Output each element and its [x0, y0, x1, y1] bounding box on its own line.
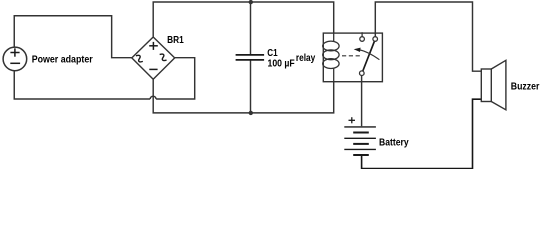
svg-text:Battery: Battery	[379, 137, 409, 148]
wire C1 top lead	[250, 2, 252, 55]
relay actuation arrow head	[354, 48, 361, 52]
buzzer cone	[491, 60, 506, 110]
BR1 plus sign	[149, 42, 158, 50]
wire relay NO contact to buzzer top	[375, 2, 481, 71]
relay switch arm	[363, 41, 375, 71]
relay common contact circle	[360, 71, 365, 76]
relay box	[323, 33, 382, 82]
wire battery minus to buzzer bottom	[362, 99, 482, 168]
svg-text:relay: relay	[296, 53, 316, 64]
svg-text:Buzzer: Buzzer	[511, 81, 540, 92]
relay actuation arrow tail	[359, 50, 379, 60]
svg-text:BR1: BR1	[167, 35, 184, 46]
svg-text:Power adapter: Power adapter	[32, 54, 93, 65]
relay NO contact circle	[373, 37, 378, 42]
BR1 right AC tilde	[159, 53, 168, 62]
wire C1 bottom lead	[250, 60, 252, 113]
wire adapter bottom lead	[14, 71, 150, 99]
relay NC contact stub	[361, 32, 363, 37]
wire adapter top to BR1 left AC terminal	[14, 16, 131, 58]
node junction dot C1 top	[249, 0, 253, 4]
wire DC minus rail BR1 bottom to relay coil bottom	[153, 79, 334, 113]
wire hop over DC minus lead	[150, 96, 156, 99]
buzzer driver rectangle	[481, 69, 491, 102]
node junction dot C1 bottom	[249, 111, 253, 115]
wire relay common to battery plus	[361, 76, 363, 127]
battery plates	[344, 127, 376, 155]
power adapter source circle	[3, 47, 27, 71]
relay coil	[323, 33, 339, 82]
power adapter minus sign	[10, 62, 20, 64]
wire continue to BR1 right AC terminal	[156, 58, 195, 99]
relay dashed actuation line	[342, 55, 361, 57]
wire DC plus rail BR1 top to relay coil	[153, 2, 334, 37]
BR1 left AC tilde	[135, 54, 144, 63]
svg-text:100 µF: 100 µF	[268, 58, 295, 69]
BR1 minus sign	[149, 68, 157, 70]
battery plus sign	[349, 117, 356, 123]
relay NC contact circle	[360, 37, 365, 42]
bridge rectifier BR1 diamond	[132, 37, 175, 79]
power adapter plus sign	[10, 48, 19, 56]
capacitor C1 plates	[236, 55, 265, 60]
